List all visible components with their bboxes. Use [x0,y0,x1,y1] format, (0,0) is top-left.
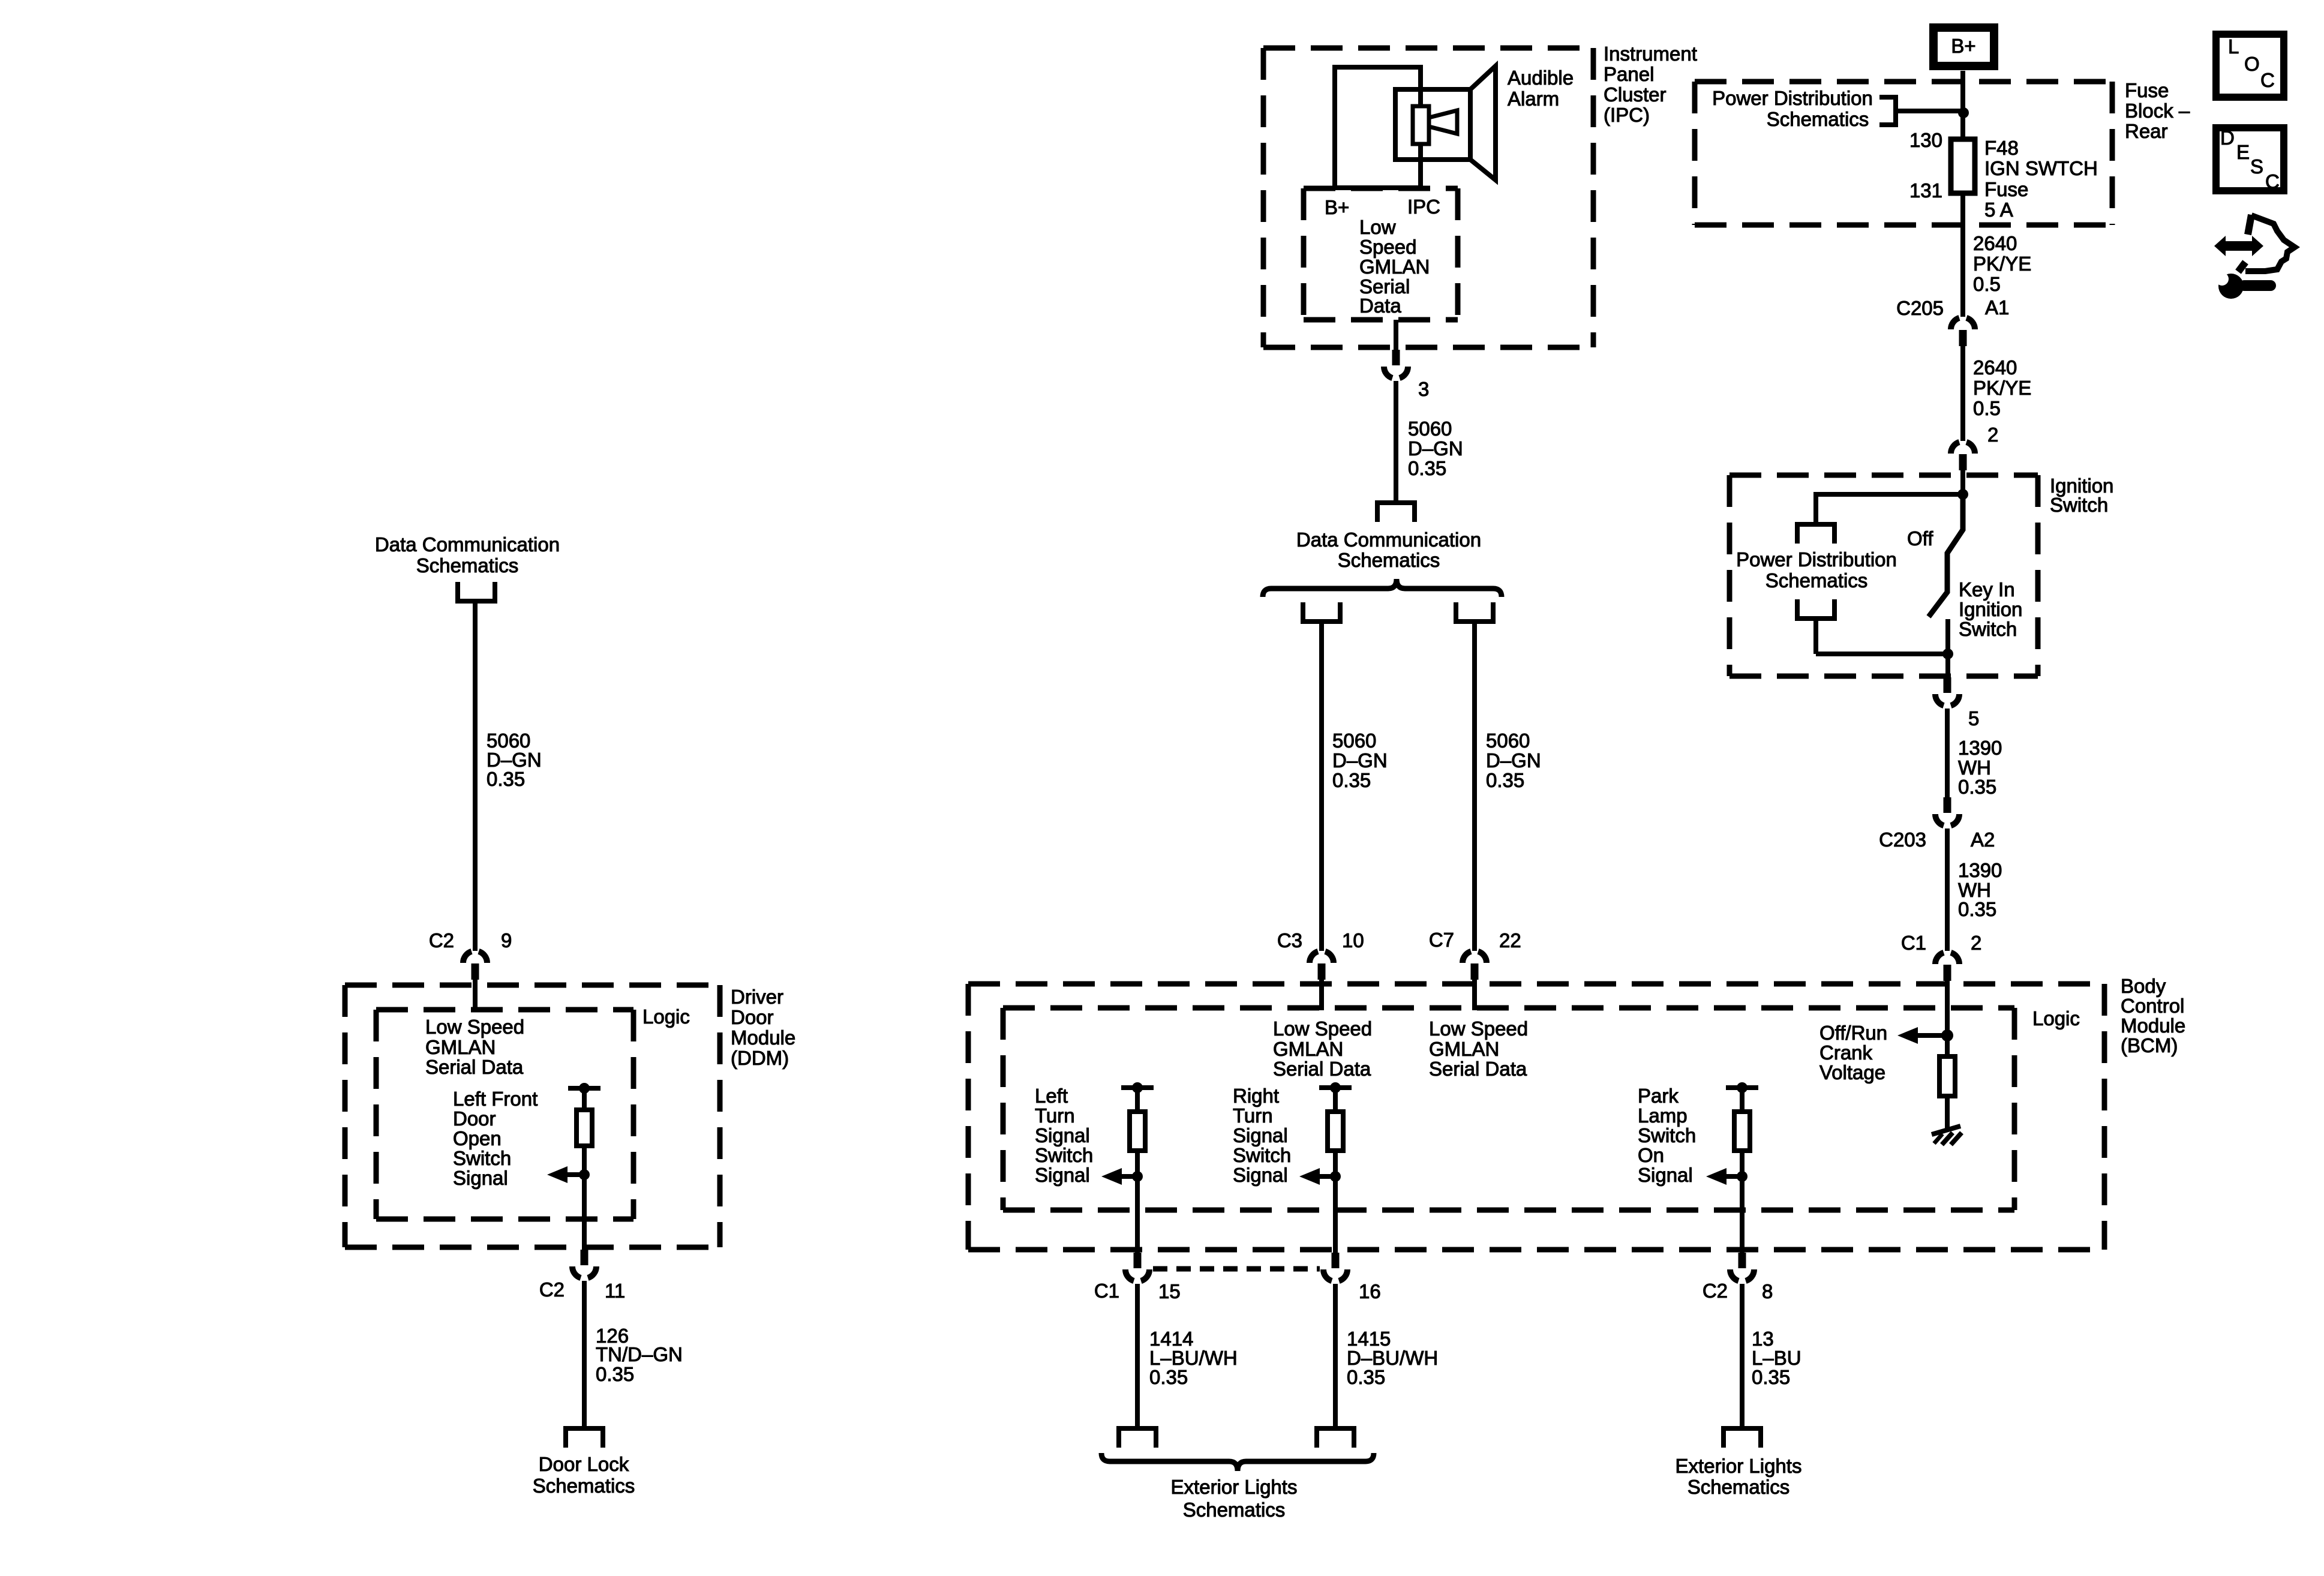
svg-text:Fuse: Fuse [1984,178,2028,200]
svg-text:0.35: 0.35 [1486,769,1524,791]
wire 1390 WH to C203 [1945,709,1950,800]
svg-text:Switch: Switch [2050,494,2108,516]
fuse F48 IGN SWTCH 5 A [1951,139,1975,193]
svg-text:F48: F48 [1984,137,2019,159]
svg-text:Schematics: Schematics [1338,549,1440,571]
svg-text:Schematics: Schematics [1765,569,1868,592]
svg-text:C3: C3 [1277,929,1302,951]
svg-text:Driver: Driver [731,986,783,1008]
svg-text:2640: 2640 [1973,232,2017,254]
svg-text:A1: A1 [1985,296,2009,319]
wire 1415 D-BU/WH (C1-16 down) [1333,1284,1338,1431]
connector C2 pin 11 (DDM exit) [572,1250,596,1278]
branch Park Lamp Switch On Signal [1638,1085,1696,1186]
svg-text:Left: Left [1035,1085,1068,1107]
internal rail T-bar (DDM switch signal) [568,1086,600,1091]
svg-text:Rear: Rear [2125,120,2168,142]
junction dot (ignition feed) [1957,489,1968,500]
svg-text:C203: C203 [1879,828,1926,851]
svg-text:Door: Door [453,1107,496,1130]
wire resistor down through module edge [1333,1151,1338,1256]
svg-text:A2: A2 [1971,828,1995,851]
svg-text:Key In: Key In [1959,578,2015,601]
resistor (BCM input) [1734,1112,1750,1151]
svg-text:(BCM): (BCM) [2121,1034,2178,1056]
wire resistor to ground [1945,1096,1950,1129]
wire T-bar to resistor (DDM) [582,1088,587,1113]
svg-text:On: On [1638,1144,1664,1166]
node Exterior Lights Schematics (bottom right label) [1676,1455,1802,1498]
svg-text:Switch: Switch [453,1147,511,1169]
svg-text:22: 22 [1499,929,1521,951]
svg-text:Panel: Panel [1604,63,1654,85]
off-page reference bracket (left, to Data Communication Schematics) [458,582,495,601]
svg-text:Switch: Switch [1233,1144,1291,1166]
off-page reference bracket (exterior lights, park lamp) [1724,1428,1761,1448]
label Left Front Door Open Switch Signal [453,1088,538,1189]
svg-text:2: 2 [1971,932,1981,954]
junction dot at arrow [1737,1171,1747,1182]
svg-text:5: 5 [1968,707,1979,730]
internal rail T-bar [1319,1085,1352,1090]
svg-text:0.35: 0.35 [1332,769,1371,791]
DDM logic inner dashed box [376,1010,633,1219]
svg-text:Serial Data: Serial Data [1429,1058,1527,1080]
label Key In Ignition Switch [1959,578,2022,640]
wire label 13 L-BU 0.35 [1752,1328,1801,1388]
wire C3 into BCM [1319,980,1324,1010]
svg-text:Low Speed: Low Speed [1273,1017,1372,1040]
speaker driver element [1413,106,1429,144]
svg-text:C: C [2260,69,2275,91]
branch Off/Run Crank Voltage [1819,1022,1887,1083]
wire T-bar to resistor [1135,1088,1140,1113]
module box Driver Door Module (DDM) outer dashed box [345,985,720,1247]
svg-text:0.5: 0.5 [1973,397,2001,419]
svg-text:Schematics: Schematics [1767,108,1869,130]
svg-text:Speed: Speed [1359,236,1416,258]
off-page reference bracket (exterior lights, right) [1317,1428,1354,1448]
svg-text:Right: Right [1233,1085,1279,1107]
svg-text:0.35: 0.35 [596,1363,634,1385]
svg-text:Alarm: Alarm [1508,88,1559,110]
svg-text:Block –: Block – [2125,100,2190,122]
wire connector 2 into ignition switch [1960,470,1965,494]
resistor (Off/Run crank voltage divider) [1939,1056,1955,1096]
svg-text:0.35: 0.35 [1347,1366,1385,1388]
node Door Lock Schematics label [533,1453,635,1497]
svg-text:IPC: IPC [1407,196,1440,218]
label Power Distribution Schematics (ignition switch) [1736,548,1897,592]
off-page reference bracket (serial data branch C7) [1456,602,1493,622]
wire label 1415 D-BU/WH 0.35 [1347,1328,1438,1388]
svg-text:Off: Off [1907,527,1933,550]
wire resistor down through module edge [1740,1151,1744,1256]
connector C1 pin 15 (BCM exit) [1125,1253,1149,1281]
svg-text:Signal: Signal [1638,1164,1693,1186]
svg-text:130: 130 [1909,129,1942,151]
svg-text:(IPC): (IPC) [1604,104,1650,126]
svg-text:GMLAN: GMLAN [1429,1038,1499,1060]
label F48 IGN SWTCH Fuse 5 A [1984,137,2098,221]
svg-text:D: D [2220,127,2235,149]
svg-text:Signal: Signal [1233,1164,1288,1186]
svg-text:Cluster: Cluster [1604,83,1667,106]
resistor (BCM input) [1328,1112,1343,1151]
IPC inner dashed box (Low Speed GMLAN Serial Data) [1304,188,1458,320]
svg-text:E: E [2236,141,2250,163]
svg-text:0.35: 0.35 [487,768,525,790]
wire 5060 D-GN (to BCM C3 pin 10) [1319,624,1324,951]
svg-text:Schematics: Schematics [1688,1476,1790,1498]
junction dot (key-in output) [1942,649,1953,659]
svg-text:5060: 5060 [1486,730,1530,752]
label Power Distribution Schematics (fuse block) [1712,87,1873,130]
svg-text:5060: 5060 [1332,730,1376,752]
svg-text:L: L [2228,35,2239,58]
svg-text:15: 15 [1158,1280,1181,1302]
svg-text:Serial Data: Serial Data [1273,1058,1371,1080]
svg-text:Turn: Turn [1233,1104,1273,1127]
svg-text:Schematics: Schematics [533,1475,635,1497]
off-page reference bracket (serial data branch C3) [1303,602,1340,622]
svg-text:TN/D–GN: TN/D–GN [596,1343,683,1365]
wire resistor down through module edge [1135,1151,1140,1256]
label Low Speed GMLAN Serial Data (BCM, C7) [1429,1017,1528,1080]
svg-text:0.5: 0.5 [1973,273,2001,295]
connector pin 3 (IPC exit) [1384,350,1408,378]
svg-text:O: O [2244,53,2260,75]
wire loop rectangle feeding audible alarm [1335,67,1421,188]
svg-text:Switch: Switch [1035,1144,1093,1166]
svg-text:D–GN: D–GN [1408,437,1463,460]
label Low Speed GMLAN Serial Data (DDM) [425,1016,524,1078]
wire resistor to arrow junction (DDM) [582,1146,587,1253]
off-page reference bracket (to Data Communication Schematics, below IPC) [1377,503,1415,522]
svg-text:C2: C2 [539,1278,565,1301]
svg-text:Module: Module [731,1026,795,1049]
svg-text:C1: C1 [1901,932,1926,954]
svg-text:3: 3 [1418,378,1429,400]
dashed connector link C1 pins 15-16 [1153,1266,1320,1272]
svg-text:8: 8 [1762,1280,1773,1302]
label Driver Door Module (DDM) [731,986,795,1069]
wire 13 L-BU (C2-8 down) [1740,1284,1744,1431]
label Audible Alarm [1508,67,1574,110]
svg-text:Switch: Switch [1959,618,2017,640]
junction dot on T-bar [1737,1082,1747,1093]
svg-text:Off/Run: Off/Run [1819,1022,1887,1044]
wire into DDM from C2 pin 9 [473,980,478,1010]
wire 1414 L-BU/WH (C1-15 down) [1135,1284,1140,1431]
svg-text:Body: Body [2121,975,2166,997]
wire 1390 WH to BCM C1 [1945,828,1950,951]
svg-text:Signal: Signal [453,1167,508,1189]
module box Body Control Module (BCM) outer dashed box [968,984,2104,1250]
connector C2 pin 8 (BCM exit) [1730,1253,1754,1281]
svg-text:C1: C1 [1094,1280,1119,1302]
wire label 5060 D-GN 0.35 (branch C3) [1332,730,1388,791]
connector pin 2 (ignition switch) [1951,442,1975,470]
branch Left Turn Signal Switch Signal [1035,1085,1093,1186]
svg-text:Serial Data: Serial Data [425,1056,524,1078]
svg-text:0.35: 0.35 [1149,1366,1188,1388]
connector C7 pin 22 (BCM) [1463,951,1487,980]
junction dot (Off/Run) [1941,1029,1953,1041]
off-page reference bracket (Power Distribution, lower) [1797,599,1834,619]
wire label 5060 D-GN 0.35 (branch C7) [1486,730,1541,791]
wire lower bracket to key-in junction [1813,619,1818,654]
speaker small horn [1429,110,1457,134]
wire T-bar to resistor [1740,1088,1744,1113]
wire label 1390 WH 0.35 (above C203) [1958,737,2002,798]
label Low Speed GMLAN Serial Data (BCM, C3) [1273,1017,1372,1080]
svg-text:Crank: Crank [1819,1041,1873,1064]
svg-text:Logic: Logic [642,1005,690,1028]
junction dot at arrow [1132,1171,1143,1182]
svg-text:Power Distribution: Power Distribution [1736,548,1897,571]
label Instrument Panel Cluster (IPC) [1604,43,1697,126]
fuse block rear dashed box [1695,82,2112,225]
wire through speaker body [1418,92,1423,157]
svg-text:Turn: Turn [1035,1104,1075,1127]
brace Exterior Lights Schematics [1101,1453,1374,1471]
svg-text:Ignition: Ignition [1959,598,2022,620]
svg-text:Data Communication: Data Communication [375,533,560,556]
module box Ignition Switch dashed box [1730,475,2038,676]
svg-text:Exterior Lights: Exterior Lights [1676,1455,1802,1477]
svg-text:1390: 1390 [1958,737,2002,759]
svg-text:Door: Door [731,1006,774,1028]
svg-text:Low: Low [1359,216,1396,238]
junction dot on T-bar [1330,1082,1341,1093]
svg-text:PK/YE: PK/YE [1973,253,2031,275]
signal arrow (Left Front Door Open Switch Signal) [547,1166,584,1183]
switch blade Off position [1929,494,1963,617]
resistor (BCM input) [1130,1112,1145,1151]
module box Instrument Panel Cluster (IPC) outer dashed box [1263,48,1593,347]
svg-text:5060: 5060 [1408,418,1452,440]
svg-text:S: S [2250,155,2263,178]
svg-text:C2: C2 [1703,1280,1728,1302]
svg-text:Logic: Logic [2032,1007,2080,1029]
wire label 2640 PK/YE 0.5 (below C205) [1973,356,2031,419]
brace Data Communication Schematics (top) [1263,579,1502,597]
branch Right Turn Signal Switch Signal [1233,1085,1291,1186]
svg-text:2640: 2640 [1973,356,2017,379]
wire fuse to C205 [1960,193,1965,317]
LOC icon box [2216,34,2284,97]
wire C205 to ignition switch connector 2 [1960,346,1965,441]
svg-text:Left Front: Left Front [453,1088,538,1110]
svg-text:B+: B+ [1325,196,1349,218]
svg-text:B+: B+ [1951,35,1975,57]
svg-text:C205: C205 [1896,297,1944,319]
svg-text:Switch: Switch [1638,1124,1696,1146]
wire label 126 TN/D-GN 0.35 [596,1325,683,1385]
BCM logic inner dashed box [1003,1008,2014,1210]
svg-text:1390: 1390 [1958,859,2002,881]
svg-text:0.35: 0.35 [1958,898,1996,920]
wire label 2640 PK/YE 0.5 (above C205) [1973,232,2031,295]
junction dot (B+ feed) [1958,107,1969,118]
svg-text:2: 2 [1987,424,1998,446]
signal arrow [1101,1168,1122,1185]
svg-text:0.35: 0.35 [1958,776,1996,798]
label Low Speed GMLAN Serial Data (IPC) [1359,216,1430,317]
svg-text:D–GN: D–GN [1486,749,1541,772]
off-page reference bracket (Power Distribution, upper) [1797,524,1834,544]
wire label 1414 L-BU/WH 0.35 [1149,1328,1238,1388]
wire IPC serial data out [1394,320,1398,351]
connector C203 pin A2 [1935,797,1959,825]
ground (BCM internal) [1932,1126,1962,1145]
label Ignition Switch [2050,475,2113,516]
svg-text:GMLAN: GMLAN [1359,256,1430,278]
svg-text:10: 10 [1342,929,1364,951]
signal arrow (Off/Run Crank Voltage) [1897,1027,1918,1044]
svg-text:Exterior Lights: Exterior Lights [1171,1476,1298,1498]
DESC icon box [2216,127,2284,193]
junction dot at arrow [1330,1171,1341,1182]
node Data Communication Schematics (left reference label) [375,533,560,577]
resistor (DDM pull-up) [577,1110,592,1146]
svg-text:PK/YE: PK/YE [1973,377,2031,399]
off-page reference bracket (exterior lights, left) [1119,1428,1156,1448]
connector pin 5 (ignition switch exit) [1935,677,1959,706]
svg-text:(DDM): (DDM) [731,1047,789,1069]
svg-text:Control: Control [2121,995,2184,1017]
svg-text:GMLAN: GMLAN [1273,1038,1343,1060]
node Data Communication Schematics (middle label) [1296,529,1481,571]
svg-text:GMLAN: GMLAN [425,1036,496,1058]
svg-text:Audible: Audible [1508,67,1574,89]
connector C1 pin 2 (BCM) [1935,953,1959,981]
svg-text:Open: Open [453,1127,502,1149]
signal arrow [1299,1168,1320,1185]
wire junction to resistor [1945,1035,1950,1058]
off-page reference bracket (Door Lock Schematics) [566,1428,603,1448]
svg-text:Door Lock: Door Lock [539,1453,629,1475]
svg-text:Schematics: Schematics [416,554,519,577]
svg-text:Low Speed: Low Speed [1429,1017,1528,1040]
connector C205 pin A1 [1951,318,1975,346]
wire junction to power distribution branch [1816,492,1963,497]
wire 5060 D-GN (IPC to reference) [1394,381,1398,503]
wrench icon [2214,268,2276,299]
wire ignition switch output down [1945,654,1950,679]
svg-text:Voltage: Voltage [1819,1061,1885,1083]
wire 5060 D-GN (left, down to DDM C2 pin 9) [473,604,478,951]
svg-text:Data: Data [1359,295,1401,317]
svg-text:16: 16 [1359,1280,1381,1302]
svg-text:11: 11 [605,1280,625,1302]
connector C3 pin 10 (BCM) [1310,951,1334,980]
svg-text:Power Distribution: Power Distribution [1712,87,1873,109]
svg-text:0.35: 0.35 [1752,1366,1790,1388]
svg-text:0.35: 0.35 [1408,457,1446,479]
svg-text:Signal: Signal [1233,1124,1288,1146]
wire C1 pin 2 into BCM [1945,981,1950,1035]
svg-text:5 A: 5 A [1984,199,2013,221]
svg-text:Signal: Signal [1035,1164,1090,1186]
wire 126 TN/D-GN (to Door Lock Schematics) [582,1281,587,1428]
label Fuse Block - Rear [2125,79,2190,142]
label Body Control Module (BCM) [2121,975,2185,1056]
connector C2 pin 9 (DDM) [463,951,487,980]
svg-text:C: C [2265,170,2280,193]
wire T-bar to resistor [1333,1088,1338,1113]
switch lower contact stub [1945,619,1950,654]
wire label 5060 D-GN 0.35 (IPC) [1408,418,1463,479]
wire B+ down to fuse [1960,71,1965,140]
speaker big horn [1470,66,1496,180]
jump/view icon (double arrow with outline) [2214,215,2295,272]
svg-text:Low Speed: Low Speed [425,1016,524,1038]
bracket to Power Distribution Schematics [1879,97,1896,125]
svg-text:Data Communication: Data Communication [1296,529,1481,551]
svg-text:Fuse: Fuse [2125,79,2169,101]
svg-text:Schematics: Schematics [1183,1499,1286,1521]
connector C1 pin 16 (BCM exit) [1323,1253,1347,1281]
svg-text:Signal: Signal [1035,1124,1090,1146]
wire label 5060 D-GN 0.35 (left) [487,730,542,790]
svg-text:131: 131 [1909,179,1942,202]
svg-text:C7: C7 [1429,929,1454,951]
signal arrow [1706,1168,1727,1185]
wire label 1390 WH 0.35 (below C203) [1958,859,2002,920]
svg-text:Instrument: Instrument [1604,43,1697,65]
svg-text:Lamp: Lamp [1638,1104,1688,1127]
svg-text:Module: Module [2121,1014,2185,1037]
node Exterior Lights Schematics (bottom left label) [1171,1476,1298,1521]
audible alarm speaker body [1395,89,1470,160]
wire 5060 D-GN (to BCM C7 pin 22) [1472,624,1477,951]
power terminal B+ [1933,28,1994,66]
junction dot on T-bar [1132,1082,1143,1093]
svg-text:C2: C2 [429,929,454,951]
svg-text:9: 9 [501,929,512,951]
internal rail T-bar [1121,1085,1154,1090]
svg-text:Park: Park [1638,1085,1679,1107]
svg-text:D–GN: D–GN [1332,749,1388,772]
junction dot at arrow (DDM) [579,1169,590,1180]
svg-text:IGN SWTCH: IGN SWTCH [1984,157,2098,179]
internal rail T-bar [1726,1085,1758,1090]
wire C7 into BCM [1472,980,1477,1010]
junction dot on T-bar (DDM) [579,1083,590,1094]
wire bracket to B+ feed junction [1896,109,1963,113]
